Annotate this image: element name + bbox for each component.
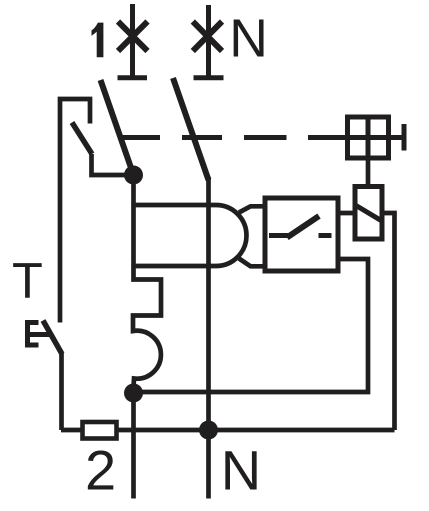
relay contact left (269, 233, 288, 238)
test latch blade (72, 123, 92, 155)
wire funnel bottom (239, 259, 265, 267)
test button actuator (25, 320, 53, 347)
mechanism right stub (389, 135, 404, 140)
terminal N cross (193, 22, 222, 52)
relay contact blade (287, 216, 319, 238)
solenoid diagonal (356, 206, 381, 221)
test button blade (43, 321, 62, 355)
terminal N bar (194, 75, 224, 80)
wire N conductor (206, 177, 211, 499)
wire relay to solenoid (338, 211, 355, 216)
wire test button lower (59, 353, 64, 430)
svg-text:N: N (221, 438, 261, 501)
mechanism T-bar (402, 124, 407, 151)
terminal 1 cross (118, 22, 148, 52)
wire mechanism to solenoid (366, 158, 371, 187)
relay U1 box (265, 198, 338, 271)
wire solenoid output (382, 213, 395, 430)
wire latch to node A (92, 154, 134, 175)
wire test hook (60, 99, 90, 323)
solenoid K1 (355, 187, 382, 240)
wire relay return (134, 259, 369, 392)
relay contact right (319, 233, 332, 238)
node B junction dot winding (124, 384, 143, 403)
mechanical coupling dashed line (120, 135, 346, 140)
resistor R1 (83, 422, 117, 439)
terminal 1 stem (130, 4, 135, 78)
terminal N stem (206, 5, 211, 78)
wire pole1 conductor with secondary winding (133, 168, 161, 388)
label 1 (92, 23, 104, 58)
node C junction dot on N (199, 421, 218, 440)
svg-text:2: 2 (85, 438, 116, 501)
pole N moving blade (173, 78, 209, 180)
pole 1 moving blade (101, 80, 134, 175)
terminal 1 bar (118, 75, 148, 80)
wire conductor to terminal 2 (131, 393, 136, 499)
wire bottom test line left (61, 428, 81, 433)
wire bottom line right (117, 428, 395, 433)
operating mechanism square with cross (348, 117, 389, 158)
node A junction dot pole1 (124, 166, 143, 185)
svg-text:T: T (12, 252, 43, 309)
wire funnel top (239, 206, 265, 212)
svg-text:N: N (229, 9, 268, 68)
current transformer core (133, 205, 247, 266)
